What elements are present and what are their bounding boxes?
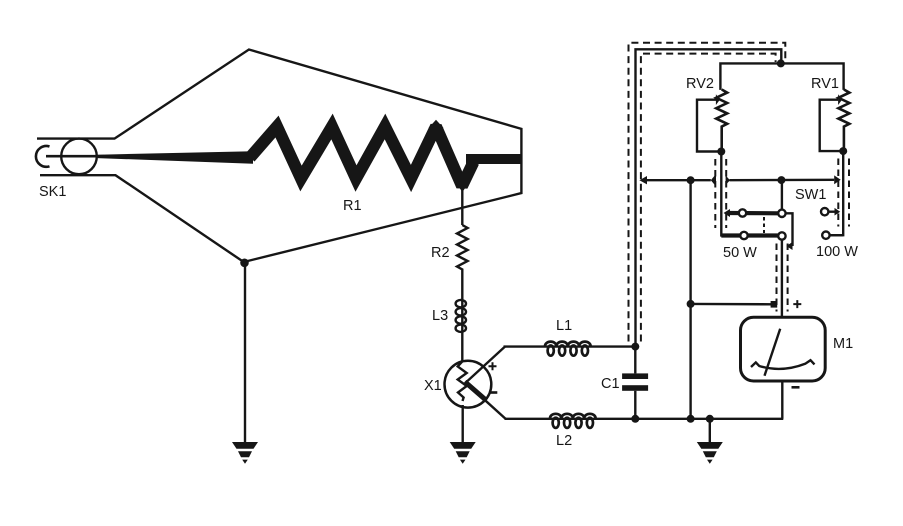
X1 plus sign — [489, 362, 497, 370]
SW1 100W contact bottom — [822, 232, 829, 239]
wire C1 bottom stem — [634, 391, 636, 419]
100W wiper arrow — [835, 208, 841, 216]
svg-text:M1: M1 — [833, 336, 853, 352]
resistor R2 — [457, 225, 468, 272]
SW1 top row arrow — [724, 209, 731, 217]
resistor R1 (bold zigzag) — [250, 127, 474, 187]
svg-text:L3: L3 — [432, 308, 448, 324]
SW1 bottom row contact right — [778, 232, 785, 239]
wire R2 to L3 — [461, 272, 463, 300]
svg-text:R1: R1 — [343, 198, 362, 214]
main bus wire y=180 — [647, 179, 711, 181]
wire RV1 bottom down to 100W contact — [829, 151, 843, 235]
svg-text:RV2: RV2 — [686, 76, 714, 92]
connector SK1 outer arc — [36, 146, 50, 167]
SW1 top row contact right — [778, 210, 785, 217]
capacitor C1 plates — [622, 373, 648, 379]
node: R1 tap taper to R2 — [455, 182, 470, 193]
svg-text:C1: C1 — [601, 376, 620, 392]
SW1 hook arrow — [786, 242, 792, 250]
node dot RV2 bottom — [717, 148, 725, 156]
bus wire centre section — [730, 179, 835, 182]
node dot top — [777, 59, 785, 67]
thermocouple X1 circle — [445, 361, 492, 408]
M1 needle — [765, 329, 781, 376]
node dot RV1 bottom — [839, 147, 847, 155]
svg-text:R2: R2 — [431, 245, 450, 261]
svg-text:RV1: RV1 — [811, 76, 839, 92]
screen inner dashed — [641, 54, 776, 342]
svg-text:100 W: 100 W — [816, 244, 858, 260]
node dot L1/C1/feed — [631, 343, 639, 351]
inductor L1 — [545, 342, 591, 356]
SW1 gang dashed link — [763, 217, 765, 233]
meter + lead — [781, 240, 783, 318]
svg-text:L1: L1 — [556, 318, 572, 334]
100W bottom stub — [830, 234, 844, 236]
inductor L3 — [456, 300, 466, 332]
meter lead screen dashes — [776, 244, 778, 312]
svg-text:X1: X1 — [424, 378, 442, 394]
screen dashes around RV1 drop wire — [837, 159, 839, 227]
SW1 bottom row bar — [721, 233, 778, 237]
wire L1 horizontal — [504, 345, 636, 347]
meter M1 body — [741, 317, 826, 381]
switch SW1 pole wire from bus — [781, 180, 783, 210]
node dot C1 bottom — [631, 415, 639, 423]
meter plus sign — [793, 300, 801, 308]
RV1 wiper wire box — [820, 100, 844, 151]
wire x690 vertical — [689, 180, 691, 419]
wire L3 to X1 — [461, 300, 463, 362]
M1 scale arc — [751, 360, 815, 369]
tapered feed to R1 — [97, 151, 253, 163]
wire L2 horizontal bottom bus — [505, 418, 784, 420]
bus right end arrow — [834, 175, 841, 184]
X1 plus lead inside — [466, 347, 505, 383]
bus arrow right of RV2 wire — [726, 175, 730, 185]
SW1 top row contact left — [739, 209, 746, 216]
screened feed wire (up, across top, down) — [636, 49, 782, 346]
screen link blob — [771, 301, 778, 308]
wire C1 top stem — [634, 347, 636, 374]
node dot ground stem — [706, 415, 714, 423]
wire R1 tap down to R2 — [461, 188, 463, 225]
X1 thermo-junction bar — [465, 382, 487, 401]
SW1 hook to meter lead — [786, 213, 793, 246]
node dot x690 screen link — [687, 300, 695, 308]
wire RV tops bus — [720, 63, 843, 90]
connector SK1 centre pin wire — [46, 155, 104, 158]
bus left end arrow to screen — [639, 176, 647, 184]
RV2 wiper wire box — [697, 100, 721, 152]
connector SK1 body circle — [61, 139, 97, 175]
svg-text:50 W: 50 W — [723, 245, 757, 261]
node dot at enclosure bottom vertex — [240, 259, 249, 268]
wire enclosure bottom vertex to ground — [244, 262, 246, 443]
rheostat RV1 zigzag — [838, 90, 849, 152]
X1 heater zigzag — [458, 362, 467, 402]
svg-text:SK1: SK1 — [39, 184, 66, 200]
ground below enclosure — [232, 442, 258, 464]
SW1 bottom row contact left — [740, 232, 747, 239]
X1 minus sign — [489, 391, 497, 394]
M1 minus sign — [792, 386, 800, 389]
inductor L2 — [550, 414, 596, 428]
rheostat RV2 zigzag — [716, 90, 727, 152]
svg-text:L2: L2 — [556, 433, 572, 449]
svg-text:SW1: SW1 — [795, 187, 826, 203]
R1 peak sharpener — [429, 120, 444, 128]
ground below X1 — [450, 442, 476, 464]
node dot bus/pole — [777, 176, 785, 184]
dummy-load enclosure outline — [37, 50, 521, 263]
wire RV2 bottom down to switch — [720, 152, 722, 237]
RV2 wiper arrow — [716, 94, 720, 105]
node dot bus/x690 — [687, 176, 695, 184]
SW1 100W contact top — [821, 208, 828, 215]
M1 minus lead — [781, 381, 783, 419]
wire X1 to ground — [462, 405, 464, 443]
ground below bottom bus — [697, 442, 723, 464]
X1 minus lead diagonal to L2 — [485, 400, 506, 419]
screen outer dashed — [629, 43, 786, 342]
100W wiper stub — [828, 210, 834, 212]
wire screen link horizontal — [691, 303, 774, 306]
bus arrow left of RV2 wire — [711, 174, 716, 186]
RV1 wiper arrow — [838, 94, 842, 105]
R1 exit bar to enclosure edge — [466, 154, 521, 164]
wire ground stem bottom bus — [709, 419, 711, 443]
screen dashes around RV2 drop wire — [714, 159, 716, 228]
node dot x690 bottom bus — [687, 415, 695, 423]
SW1 top row bar — [730, 211, 779, 216]
